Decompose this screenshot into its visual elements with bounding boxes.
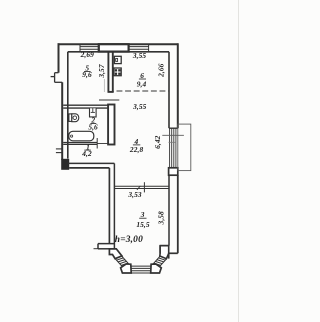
bathroom top wall: [63, 104, 108, 106]
svg-text:15,5: 15,5: [136, 220, 150, 229]
balcony tick: [162, 134, 184, 136]
room3 left wall inner: [113, 163, 115, 248]
bay: left wing end cap: [97, 244, 99, 249]
room3 right wall inner: [168, 175, 170, 245]
left wall door ticks: [56, 149, 62, 153]
vent box 2 cross flue: [114, 68, 121, 76]
right wall inner upper: [168, 52, 170, 128]
partition room5 | room6: [108, 52, 114, 92]
bay: left wing top line: [98, 243, 114, 245]
faint jamb line: [103, 79, 105, 92]
svg-text:h=3,00: h=3,00: [115, 235, 143, 245]
window W1 room5 top: [80, 44, 98, 52]
svg-text:3,57: 3,57: [97, 64, 106, 79]
svg-text:3,53: 3,53: [127, 190, 142, 199]
top wall inner line: [68, 51, 169, 53]
bay: right outer step: [169, 252, 178, 254]
toilet: [69, 114, 79, 122]
bay: left corner pier: [109, 249, 122, 259]
left wall outer lower: [61, 82, 63, 160]
pilaster bathroom right wall: [108, 105, 114, 145]
dimension tick 3,53: [143, 182, 145, 192]
bay: left pentagon pier: [121, 264, 132, 273]
room3 right wall outer: [177, 175, 179, 253]
top wall pier between windows: [99, 44, 129, 51]
corridor bottom wall inner: [68, 162, 115, 164]
bay: right angled window: [152, 256, 167, 267]
svg-text:3,55: 3,55: [132, 51, 147, 60]
bathroom bottom wall: [63, 142, 97, 144]
partition room4 | room3: [114, 185, 169, 187]
bay: right pentagon pier: [151, 264, 162, 273]
oblique tick: [137, 186, 141, 190]
window W3 right balcony window: [170, 128, 176, 168]
corridor bottom wall outer: [69, 167, 109, 169]
bathroom door threshold: [97, 143, 108, 145]
room 5 label: [80, 50, 166, 229]
door opening line room5-hall: [99, 99, 119, 101]
room3 left wall outer: [108, 168, 110, 244]
bay: left wing bottom line: [98, 248, 109, 250]
bathtub: [69, 131, 94, 141]
top wall outer line: [58, 43, 178, 45]
svg-text:4,2: 4,2: [81, 149, 92, 158]
bay: centre window: [131, 266, 151, 273]
balcony box: [178, 124, 191, 171]
dashed boundary room6 / hall: [117, 90, 169, 92]
sink: [90, 108, 97, 117]
page edge shadow: [238, 0, 240, 322]
balcony sill line: [169, 141, 177, 143]
bay: right wing inner: [160, 245, 169, 247]
left wall inner line: [67, 52, 69, 159]
bay: right corner pier: [160, 246, 169, 259]
wall piece below window: [169, 168, 178, 175]
svg-text:3,55: 3,55: [132, 102, 147, 111]
bay: left angled window: [115, 256, 130, 267]
bathroom door tick: [96, 138, 98, 149]
fraction underlines: [84, 72, 147, 219]
svg-text:3: 3: [140, 210, 145, 219]
svg-text:22,8: 22,8: [129, 145, 144, 154]
svg-text:2,66: 2,66: [156, 63, 165, 78]
right wall outer upper: [177, 43, 179, 128]
window W2 room6 top: [129, 44, 149, 52]
svg-text:6,42: 6,42: [153, 135, 162, 149]
vent box 1: [114, 56, 121, 63]
bay: left wing tick: [94, 248, 99, 250]
svg-text:2,69: 2,69: [80, 50, 95, 59]
svg-text:9,4: 9,4: [137, 79, 147, 88]
left wall outer upper: [58, 43, 60, 72]
corner pier black: [61, 159, 69, 170]
svg-text:3,58: 3,58: [156, 211, 165, 226]
chimney protrusion: [51, 73, 63, 83]
